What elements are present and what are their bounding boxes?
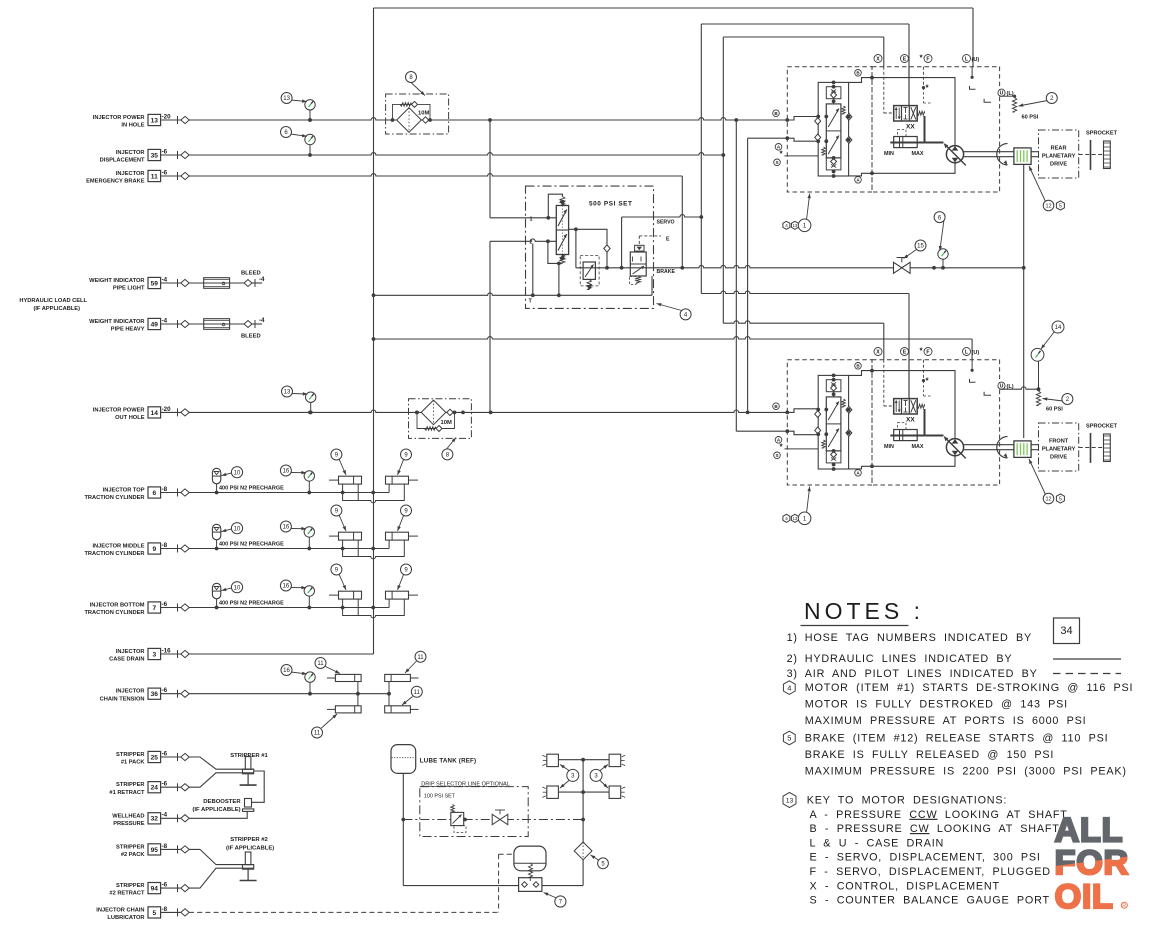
svg-text:12: 12 xyxy=(1046,496,1052,502)
wire lower case drain to lower L(U) xyxy=(374,337,973,339)
hose tag sample box 34 xyxy=(1054,618,1080,644)
svg-text:-6: -6 xyxy=(162,169,168,176)
svg-text:EMERGENCY BRAKE: EMERGENCY BRAKE xyxy=(86,179,145,185)
svg-text:MAXIMUM PRESSURE AT PORTS IS 6: MAXIMUM PRESSURE AT PORTS IS 6000 PSI xyxy=(805,715,1087,727)
svg-text:MOTOR IS FULLY DESTROKED @ 143: MOTOR IS FULLY DESTROKED @ 143 PSI xyxy=(805,699,1068,711)
svg-text:-6: -6 xyxy=(162,601,168,608)
lube tank xyxy=(391,745,416,774)
chain tension item 11 labels xyxy=(326,667,341,674)
svg-text:STRIPPER #2: STRIPPER #2 xyxy=(230,837,268,843)
svg-text:#1 RETRACT: #1 RETRACT xyxy=(109,790,145,796)
note 5 xyxy=(783,731,795,745)
svg-text:OUT HOLE: OUT HOLE xyxy=(115,415,145,421)
wire brake bus between brakes xyxy=(1023,164,1025,438)
svg-text:59: 59 xyxy=(151,280,159,287)
svg-text:WEIGHT INDICATOR: WEIGHT INDICATOR xyxy=(89,319,144,325)
manifold drain 2 xyxy=(558,263,560,295)
leader+circle 15 xyxy=(904,250,917,259)
svg-text:15: 15 xyxy=(917,244,924,250)
svg-text:X - CONTROL, DISPLACEMENT: X - CONTROL, DISPLACEMENT xyxy=(810,880,1000,892)
svg-text:13: 13 xyxy=(793,516,798,521)
REAR X pilot dashed xyxy=(883,67,885,113)
svg-text:11: 11 xyxy=(314,731,321,737)
ball valve 15 on brake line xyxy=(894,262,902,273)
svg-text:SPROCKET: SPROCKET xyxy=(1086,424,1118,430)
svg-text:LUBE TANK (REF): LUBE TANK (REF) xyxy=(420,757,477,764)
svg-text:14: 14 xyxy=(1055,325,1062,331)
svg-text:1): 1) xyxy=(787,632,798,644)
svg-text:B - PRESSURE CW LOOKING AT SHA: B - PRESSURE CW LOOKING AT SHAFT xyxy=(810,823,1060,835)
svg-text:10M: 10M xyxy=(418,111,429,117)
svg-text:16: 16 xyxy=(283,668,290,674)
REAR internal A wire xyxy=(849,163,955,176)
svg-text:400 PSI N2 PRECHARGE: 400 PSI N2 PRECHARGE xyxy=(219,486,284,492)
svg-text:5: 5 xyxy=(1059,496,1062,502)
svg-text:BRAKE (ITEM #12) RELEASE START: BRAKE (ITEM #12) RELEASE STARTS @ 110 PS… xyxy=(805,733,1109,745)
svg-text:DEBOOSTER: DEBOOSTER xyxy=(203,799,241,805)
wire case drain bus vertical xyxy=(373,8,375,654)
REAR gauge port bracket 2 xyxy=(984,99,991,103)
weight indicator pipe light hose xyxy=(189,282,244,284)
svg-text:PRESSURE: PRESSURE xyxy=(113,821,144,827)
svg-text:-16: -16 xyxy=(162,647,172,654)
svg-text:16: 16 xyxy=(283,469,290,475)
svg-text:DISPLACEMENT: DISPLACEMENT xyxy=(100,158,145,164)
svg-text:PIPE LIGHT: PIPE LIGHT xyxy=(113,286,145,292)
svg-text:F - SERVO, DISPLACEMENT, PLUGG: F - SERVO, DISPLACEMENT, PLUGGED xyxy=(810,866,1051,878)
svg-text:MOTOR (ITEM #1) STARTS DE-STRO: MOTOR (ITEM #1) STARTS DE-STROKING @ 116… xyxy=(805,682,1134,694)
svg-text:L & U - CASE DRAIN: L & U - CASE DRAIN xyxy=(810,837,945,849)
svg-text:PLANETARY: PLANETARY xyxy=(1042,446,1076,452)
svg-text:SPROCKET: SPROCKET xyxy=(1086,131,1118,137)
REAR servo feedback dashed box xyxy=(898,130,907,137)
svg-text:BLEED: BLEED xyxy=(241,334,261,340)
svg-text:10: 10 xyxy=(234,526,241,532)
FRONT brake coupling item 12 xyxy=(1014,441,1031,458)
traction cylinder row 6 (top) xyxy=(189,492,343,494)
REAR actuator rod thick line xyxy=(890,142,925,144)
filter 8 lower (10M) on row 14 xyxy=(409,399,472,439)
oiler item 7 xyxy=(514,846,546,871)
svg-text:14: 14 xyxy=(151,410,159,417)
svg-text:5: 5 xyxy=(787,734,791,743)
nozzle upper right xyxy=(609,754,621,766)
svg-text:11: 11 xyxy=(317,661,324,667)
svg-text:XX: XX xyxy=(906,417,915,424)
svg-text:BLEED: BLEED xyxy=(241,271,261,277)
svg-text:E - SERVO, DISPLACEMENT, 300 P: E - SERVO, DISPLACEMENT, 300 PSI xyxy=(810,852,1041,864)
svg-text:-4: -4 xyxy=(162,276,168,283)
svg-text:CHAIN TENSION: CHAIN TENSION xyxy=(100,696,145,702)
svg-text:OIL: OIL xyxy=(1055,878,1114,916)
svg-text:MIN: MIN xyxy=(884,444,894,450)
FRONT gauge port bracket 1 xyxy=(970,379,976,382)
wire row 35 displacement xyxy=(189,153,723,155)
REAR brake item labels 12 5 xyxy=(1029,166,1046,202)
FRONT port A label xyxy=(775,437,782,444)
manifold valve bottom loop xyxy=(548,241,563,263)
REAR internal B wire xyxy=(849,78,955,146)
REAR stroking actuator xyxy=(894,137,918,148)
svg-text:WELLHEAD: WELLHEAD xyxy=(112,813,144,819)
svg-text:-4: -4 xyxy=(259,276,265,283)
note 13 xyxy=(783,793,796,808)
svg-text:A - PRESSURE CCW LOOKING AT SH: A - PRESSURE CCW LOOKING AT SHAFT xyxy=(810,809,1068,821)
svg-text:X: X xyxy=(876,349,880,355)
FRONT F plugged port xyxy=(923,360,925,381)
manifold 500 PSI SET box xyxy=(526,186,654,308)
FRONT assembly counterbalance dashed box xyxy=(787,360,872,485)
svg-text:#2 PACK: #2 PACK xyxy=(121,852,145,858)
lube filter lines xyxy=(582,820,584,843)
svg-text:-8: -8 xyxy=(162,542,168,549)
svg-text:4: 4 xyxy=(785,223,788,229)
FRONT assembly motor dashed box xyxy=(872,360,1000,485)
svg-text:12: 12 xyxy=(1046,203,1052,209)
REAR assembly motor dashed box xyxy=(872,67,1000,192)
svg-text:49: 49 xyxy=(151,321,159,328)
svg-text:-6: -6 xyxy=(162,148,168,155)
svg-text:STRIPPER: STRIPPER xyxy=(116,752,144,758)
svg-text:10: 10 xyxy=(234,585,241,591)
REAR F plugged port xyxy=(923,67,925,88)
lower circle 2 xyxy=(1043,399,1064,402)
svg-text:MAX: MAX xyxy=(912,151,924,157)
svg-text:24: 24 xyxy=(151,785,159,792)
FRONT gauge port bracket 2 xyxy=(984,392,991,396)
debooster wire xyxy=(252,771,265,802)
FRONT planetary drive box xyxy=(1039,423,1079,471)
svg-text:16: 16 xyxy=(283,525,290,531)
FRONT counterbalance valve block xyxy=(818,375,848,469)
REAR E line into servo valve xyxy=(908,67,910,106)
svg-text:-6: -6 xyxy=(162,750,168,757)
svg-text:INJECTOR BOTTOM: INJECTOR BOTTOM xyxy=(90,603,145,609)
svg-text:STRIPPER: STRIPPER xyxy=(116,883,144,889)
FRONT internal A wire xyxy=(849,456,955,469)
svg-text:60 PSI: 60 PSI xyxy=(1046,407,1063,413)
lube filter item 5 xyxy=(574,842,592,860)
svg-text:25: 25 xyxy=(151,754,159,761)
svg-text:4: 4 xyxy=(785,516,788,522)
chain tension row wire xyxy=(189,693,358,695)
FRONT S wire xyxy=(785,448,819,450)
svg-text:TRACTION CYLINDER: TRACTION CYLINDER xyxy=(84,495,144,501)
svg-text:(IF APPLICABLE): (IF APPLICABLE) xyxy=(192,807,240,813)
FRONT X pilot dashed xyxy=(883,360,885,406)
svg-text:PIPE HEAVY: PIPE HEAVY xyxy=(111,327,145,333)
upper circle 2 xyxy=(1019,101,1048,107)
lower 60 PSI spring check xyxy=(1036,391,1040,406)
svg-text:400 PSI N2 PRECHARGE: 400 PSI N2 PRECHARGE xyxy=(219,601,284,607)
FRONT brake item labels 12 5 xyxy=(1029,459,1046,495)
svg-text:13: 13 xyxy=(786,797,794,804)
svg-text:(IF APPLICABLE): (IF APPLICABLE) xyxy=(226,846,274,852)
svg-text:5: 5 xyxy=(152,910,156,917)
REAR variable displacement motor xyxy=(946,146,963,163)
svg-text:INJECTOR: INJECTOR xyxy=(116,689,145,695)
svg-text:MAXIMUM PRESSURE IS 2200 PSI (: MAXIMUM PRESSURE IS 2200 PSI (3000 PSI P… xyxy=(805,766,1127,778)
wire power-in drop to lower A xyxy=(735,120,737,431)
svg-text:R: R xyxy=(1122,903,1126,909)
svg-text:DRIVE: DRIVE xyxy=(1050,161,1067,167)
svg-text:INJECTOR CHAIN: INJECTOR CHAIN xyxy=(96,907,144,913)
FRONT port E label xyxy=(901,348,909,356)
wire servo line xyxy=(622,215,702,217)
traction cylinder row 7 (bottom) xyxy=(189,607,343,609)
svg-text:XX: XX xyxy=(906,124,915,131)
manifold T line xyxy=(526,294,653,296)
svg-text:(U): (U) xyxy=(972,57,980,63)
svg-text:X: X xyxy=(876,56,880,62)
stripper #1 symbol xyxy=(245,757,251,770)
svg-text:7: 7 xyxy=(152,605,156,612)
FRONT port L(U) label xyxy=(963,348,971,356)
debooster symbol xyxy=(245,799,252,808)
svg-text:PLANETARY: PLANETARY xyxy=(1042,153,1076,159)
REAR counterbalance valve block xyxy=(818,82,848,176)
note 4 xyxy=(783,681,795,695)
wire manifold port 2 drop to row 14 xyxy=(489,241,491,412)
svg-text:STRIPPER: STRIPPER xyxy=(116,844,144,850)
svg-text:E: E xyxy=(903,349,907,355)
wire displacement drop to lower X xyxy=(722,155,724,323)
svg-text:11: 11 xyxy=(414,690,421,696)
svg-text:-20: -20 xyxy=(162,406,172,413)
wellhead pressure wire xyxy=(189,811,247,818)
svg-text:5: 5 xyxy=(1059,203,1062,209)
svg-text:1: 1 xyxy=(803,516,807,523)
svg-text:MIN: MIN xyxy=(884,151,894,157)
FRONT actuator rod thick line xyxy=(890,435,925,437)
svg-text:11: 11 xyxy=(151,173,158,180)
svg-text:100 PSI SET: 100 PSI SET xyxy=(424,794,456,800)
svg-text:TRACTION CYLINDER: TRACTION CYLINDER xyxy=(84,610,144,616)
svg-text:60 PSI: 60 PSI xyxy=(1022,115,1039,121)
svg-text:S: S xyxy=(775,453,778,458)
svg-text:(IF APPLICABLE): (IF APPLICABLE) xyxy=(33,306,80,312)
FRONT item labels 4 13 1 xyxy=(807,487,810,514)
svg-text:LUBRICATOR: LUBRICATOR xyxy=(107,915,144,921)
svg-text:MAX: MAX xyxy=(912,444,924,450)
svg-text:1: 1 xyxy=(803,223,807,230)
svg-text:-8: -8 xyxy=(162,486,168,493)
svg-text:KEY TO MOTOR DESIGNATIONS:: KEY TO MOTOR DESIGNATIONS: xyxy=(807,795,1007,807)
traction cylinder row 9 (middle) xyxy=(189,548,343,550)
wire brake line xyxy=(576,265,1024,267)
filter 8 upper (10M) on row 13 xyxy=(386,94,449,134)
REAR port L(U) label xyxy=(963,55,971,63)
FRONT E line into servo valve xyxy=(908,360,910,399)
REAR rotation arrow xyxy=(997,144,1008,165)
FRONT stroking actuator xyxy=(894,430,918,441)
upper 60 PSI spring check xyxy=(1012,98,1016,113)
drip line xyxy=(403,819,451,821)
svg-text:10: 10 xyxy=(234,470,241,476)
stripper #2 symbol xyxy=(245,852,251,865)
manifold leader+circle 4 xyxy=(657,304,682,311)
nozzle manifold xyxy=(582,760,584,820)
svg-text:AIR AND PILOT LINES INDICATED: AIR AND PILOT LINES INDICATED BY xyxy=(805,668,1038,680)
svg-text:HYDRAULIC LINES INDICATED BY: HYDRAULIC LINES INDICATED BY xyxy=(805,653,1013,665)
wire row 11 emergency brake xyxy=(189,174,682,176)
FRONT servo control valve xyxy=(894,399,918,414)
svg-text:-6: -6 xyxy=(162,781,168,788)
FRONT L(U) case line xyxy=(971,360,973,371)
svg-text:95: 95 xyxy=(151,847,159,854)
svg-text:16: 16 xyxy=(283,584,290,590)
chain lubricator air line xyxy=(189,911,499,913)
svg-text:11: 11 xyxy=(417,655,424,661)
manifold port2 wire xyxy=(526,239,557,241)
svg-text:STRIPPER: STRIPPER xyxy=(116,782,144,788)
nozzle lower left xyxy=(547,786,559,798)
wire row 3 case drain xyxy=(189,653,374,655)
svg-text:#2 RETRACT: #2 RETRACT xyxy=(109,891,145,897)
drip globe valve xyxy=(492,814,500,824)
REAR servo control valve xyxy=(894,106,918,121)
svg-text:400 PSI N2 PRECHARGE: 400 PSI N2 PRECHARGE xyxy=(219,542,284,548)
svg-text:E: E xyxy=(903,56,907,62)
FRONT servo feedback dashed box xyxy=(898,423,907,430)
svg-text:2): 2) xyxy=(787,653,798,665)
gauge 13 on row 13 xyxy=(309,110,311,120)
svg-text:NOTES :: NOTES : xyxy=(804,598,924,624)
REAR motor shaft xyxy=(964,151,1014,153)
svg-text:E: E xyxy=(666,236,670,242)
svg-text:F: F xyxy=(926,349,929,355)
manifold brake release valve xyxy=(630,252,646,276)
FRONT port S label xyxy=(774,452,781,459)
oiler line xyxy=(403,885,518,887)
svg-text:S - COUNTER BALANCE GAUGE PORT: S - COUNTER BALANCE GAUGE PORT xyxy=(810,895,1050,907)
svg-text:HOSE TAG NUMBERS INDICATED BY: HOSE TAG NUMBERS INDICATED BY xyxy=(805,632,1032,644)
REAR port S label xyxy=(774,159,781,166)
svg-text:INJECTOR: INJECTOR xyxy=(116,649,145,655)
svg-text:-8: -8 xyxy=(162,906,168,913)
lower U(L) label xyxy=(998,382,1005,389)
svg-text:6: 6 xyxy=(152,490,156,497)
svg-text:DRIVE: DRIVE xyxy=(1050,454,1067,460)
svg-text:4: 4 xyxy=(787,683,791,692)
svg-text:REAR: REAR xyxy=(1051,145,1067,151)
svg-text:WEIGHT INDICATOR: WEIGHT INDICATOR xyxy=(89,278,144,284)
svg-text:35: 35 xyxy=(151,152,159,159)
svg-text:9: 9 xyxy=(152,546,156,553)
manifold pressure reducing valve xyxy=(583,262,595,279)
svg-text:INJECTOR TOP: INJECTOR TOP xyxy=(103,488,145,494)
svg-text:(U): (U) xyxy=(972,350,980,356)
REAR S wire xyxy=(785,155,819,157)
svg-text:INJECTOR MIDDLE: INJECTOR MIDDLE xyxy=(92,544,144,550)
gauge 13 on row 14 xyxy=(310,402,312,412)
lube tank stem xyxy=(402,773,404,885)
svg-text:32: 32 xyxy=(151,816,159,823)
weight indicator pipe heavy hose xyxy=(189,323,244,325)
svg-text:CASE DRAIN: CASE DRAIN xyxy=(109,657,144,663)
stripper #1 pack wire xyxy=(189,757,254,769)
svg-text:36: 36 xyxy=(151,691,159,698)
nozzle lower right xyxy=(609,786,621,798)
nozzle item 3 labels xyxy=(560,765,569,771)
REAR item labels 4 13 1 xyxy=(807,194,810,221)
svg-text:10M: 10M xyxy=(441,420,452,426)
circle 14 xyxy=(1041,332,1055,350)
svg-text:-6: -6 xyxy=(162,687,168,694)
REAR L(U) case line xyxy=(971,67,973,78)
upper U(L) label xyxy=(998,89,1005,96)
drip selector box xyxy=(420,787,528,837)
svg-text:34: 34 xyxy=(1060,625,1072,637)
REAR brake coupling item 12 xyxy=(1014,148,1031,165)
manifold reduced pressure loop xyxy=(569,229,607,244)
wire case drain top line xyxy=(374,7,974,9)
leader+circle 8 upper filter xyxy=(412,83,426,96)
FRONT variable displacement motor xyxy=(946,439,963,456)
svg-text:3): 3) xyxy=(787,668,798,680)
manifold port1 wire xyxy=(526,217,557,219)
svg-text:13: 13 xyxy=(151,117,159,124)
svg-text:94: 94 xyxy=(151,886,159,893)
wire row 13 power-in-hole to upper B xyxy=(189,118,787,120)
stripper #2 pack wire xyxy=(189,849,254,864)
svg-text:-4: -4 xyxy=(162,317,168,324)
svg-text:#1 PACK: #1 PACK xyxy=(121,760,145,766)
svg-text:TRACTION CYLINDER: TRACTION CYLINDER xyxy=(84,551,144,557)
manifold drain 1 xyxy=(532,244,534,296)
svg-text:INJECTOR POWER: INJECTOR POWER xyxy=(93,407,145,413)
REAR assembly counterbalance dashed box xyxy=(787,67,872,192)
svg-text:500 PSI SET: 500 PSI SET xyxy=(589,201,633,208)
svg-text:S: S xyxy=(775,160,778,165)
upper U(L) wire xyxy=(1000,95,1015,97)
wire row 14 power-out-hole to lower B xyxy=(189,410,787,412)
nozzle upper left xyxy=(547,754,559,766)
REAR port A label xyxy=(775,144,782,151)
manifold proportional relief valve xyxy=(556,206,568,255)
svg-text:-6: -6 xyxy=(162,882,168,889)
svg-text:-8: -8 xyxy=(162,843,168,850)
svg-text:BRAKE IS FULLY RELEASED @ 150: BRAKE IS FULLY RELEASED @ 150 PSI xyxy=(805,749,1054,761)
svg-text:FRONT: FRONT xyxy=(1049,438,1069,444)
svg-text:-4: -4 xyxy=(162,812,168,819)
svg-text:BRAKE: BRAKE xyxy=(657,269,676,275)
FRONT port X label xyxy=(874,348,882,356)
REAR port E label xyxy=(901,55,909,63)
wire power-out riser to upper A xyxy=(747,138,749,412)
REAR port X label xyxy=(874,55,882,63)
wire servo riser to upper E xyxy=(700,24,702,217)
gauge 6 on brake line xyxy=(942,259,944,268)
svg-text:13: 13 xyxy=(284,390,291,396)
FRONT internal B wire xyxy=(849,371,955,439)
wire servo drop to lower E xyxy=(700,217,702,294)
wire filter1 drop to manifold port 1 xyxy=(489,120,491,218)
lower U(L) wire xyxy=(1000,387,1039,389)
svg-text:INJECTOR: INJECTOR xyxy=(116,150,145,156)
svg-text:STRIPPER #1: STRIPPER #1 xyxy=(230,753,268,759)
svg-text:13: 13 xyxy=(283,96,290,102)
FRONT rotation arrow xyxy=(997,437,1008,458)
FRONT motor shaft xyxy=(964,444,1014,446)
REAR gauge port bracket 1 xyxy=(970,86,976,89)
svg-text:-4: -4 xyxy=(259,317,265,324)
drip relief valve xyxy=(451,812,464,825)
chain tension cylinders xyxy=(309,682,311,693)
REAR planetary drive box xyxy=(1039,130,1079,178)
REAR port B label xyxy=(773,110,780,117)
svg-text:3: 3 xyxy=(152,651,156,658)
